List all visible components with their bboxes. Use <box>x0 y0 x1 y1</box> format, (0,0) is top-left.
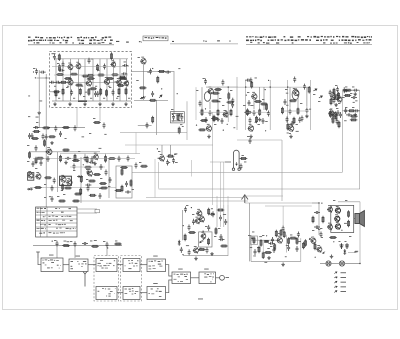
label <box>285 255 287 258</box>
wire row stage1 <box>199 111 232 113</box>
label <box>196 89 198 92</box>
wire row y152 <box>30 151 100 153</box>
label <box>318 100 320 103</box>
block IF-1 text3 <box>98 265 115 266</box>
junction <box>270 86 271 87</box>
resistor resistor R121 <box>100 187 108 189</box>
wire y255 <box>183 254 228 256</box>
arrow arrow TP10 <box>334 281 338 284</box>
wire lead <box>126 59 128 101</box>
wire x136 <box>135 133 137 154</box>
label <box>223 213 226 216</box>
wire y240 <box>251 239 280 241</box>
capacitor capacitor C119 <box>284 99 287 105</box>
transistor transistor T1 <box>67 64 73 70</box>
label <box>49 195 51 198</box>
parts list row1 right <box>246 36 372 38</box>
capacitor capacitor C1 <box>88 58 91 64</box>
junction <box>107 247 108 248</box>
capacitor capacitor C21 <box>118 156 121 162</box>
resistor resistor R60 <box>260 239 262 247</box>
wire lamps bus <box>320 263 360 265</box>
block det-2 text4 <box>0 0 1 1</box>
label <box>247 91 249 94</box>
diode diode D2 <box>27 188 33 191</box>
label <box>81 85 83 88</box>
parts list rule mid <box>170 43 238 45</box>
lamp circle 2 <box>339 261 344 266</box>
wire stage1 top <box>206 86 238 88</box>
wire row y167 <box>70 166 105 168</box>
wire row y100 <box>134 99 168 101</box>
wire x157 down <box>156 100 158 135</box>
parts list stamp text <box>145 37 167 39</box>
capacitor capacitor C60 <box>96 91 99 97</box>
label <box>203 77 205 80</box>
transistor transistor T38 <box>310 238 316 244</box>
block driver text3 <box>174 278 189 281</box>
capacitor capacitor C27 <box>125 191 131 194</box>
resistor resistor R63 <box>289 237 297 239</box>
ground <box>334 103 338 107</box>
label <box>35 125 38 128</box>
wire vertical x57 <box>57 152 59 192</box>
wire stage2 top <box>238 86 270 88</box>
wire top bus in IF unit <box>55 58 128 60</box>
capacitor capacitor C8 <box>112 90 115 96</box>
resistor resistor R22 <box>149 99 157 101</box>
wire x249 <box>249 203 251 261</box>
capacitor capacitor C45 <box>219 215 222 221</box>
resistor resistor R16 <box>125 88 127 96</box>
pot frame <box>251 236 258 245</box>
capacitor capacitor C116 <box>40 160 43 166</box>
junction <box>315 257 316 258</box>
transistor transistor T8 <box>123 80 128 86</box>
block AF-2 text3 <box>149 293 155 294</box>
capacitor capacitor C87 <box>103 64 106 70</box>
label <box>28 95 30 98</box>
rail stage2b <box>269 80 271 130</box>
label <box>247 135 249 138</box>
junction <box>83 164 84 165</box>
ground <box>281 263 285 267</box>
capacitor capacitor C52 <box>282 226 285 232</box>
resistor resistor R96 <box>72 160 80 162</box>
resistor resistor R47 <box>330 98 332 106</box>
block pre-amp text2 <box>43 262 55 263</box>
label <box>267 247 270 250</box>
transistor transistor T3 <box>110 61 115 67</box>
wire lead <box>55 59 57 101</box>
capacitor capacitor C118 <box>199 101 202 107</box>
table row 7 data <box>49 232 65 233</box>
capacitor capacitor C73 <box>346 113 352 116</box>
capacitor capacitor C115 <box>109 177 112 183</box>
resistor resistor R61 <box>275 230 277 238</box>
ground <box>267 256 271 260</box>
wire right row1 <box>343 89 360 91</box>
label <box>175 161 178 164</box>
label <box>352 106 354 109</box>
capacitor capacitor C68 <box>303 84 306 90</box>
resistor resistor R82 <box>214 89 222 91</box>
resistor resistor R79 <box>139 87 147 89</box>
transistor transistor T30 <box>200 233 205 239</box>
resistor resistor R18 <box>42 127 50 129</box>
label <box>298 240 301 243</box>
capacitor capacitor C93 <box>301 116 304 122</box>
resistor resistor R8 <box>60 81 68 83</box>
resistor resistor R129 <box>258 246 260 254</box>
resistor resistor R94 <box>86 156 88 164</box>
capacitor capacitor C90 <box>249 118 252 124</box>
label <box>341 290 347 293</box>
resistor resistor R123 <box>29 151 31 159</box>
resistor resistor R133 <box>93 174 101 176</box>
wire lead <box>161 145 163 156</box>
capacitor capacitor C14 <box>103 123 106 129</box>
capacitor capacitor C51 <box>271 237 274 243</box>
table row line <box>36 230 77 232</box>
sub-circuit frame <box>116 166 132 198</box>
label <box>333 199 335 202</box>
resistor resistor R102 <box>140 165 148 167</box>
transistor transistor T42 <box>331 111 336 117</box>
junction <box>161 88 162 89</box>
resistor resistor R77 <box>89 88 97 90</box>
capacitor capacitor C114 <box>105 170 108 176</box>
capacitor capacitor C47 <box>56 241 59 247</box>
block IF-2 text2 <box>98 291 113 292</box>
resistor resistor R80 <box>157 76 159 84</box>
ground <box>53 102 57 106</box>
wire corner x158 <box>158 162 160 189</box>
wire into IF box <box>37 77 50 79</box>
wire y71 to corner <box>131 71 174 114</box>
junction <box>265 89 266 90</box>
resistor resistor R48 <box>348 110 356 112</box>
label <box>66 86 68 89</box>
capacitor capacitor C44 <box>192 219 195 225</box>
parts list row2 left <box>28 39 113 41</box>
label <box>57 62 59 65</box>
rail stage1b <box>236 77 238 130</box>
capacitor capacitor C9 <box>35 69 38 75</box>
junction <box>287 86 288 87</box>
table row line <box>36 222 77 224</box>
transistor transistor T14 <box>35 173 41 179</box>
block driver text <box>174 274 188 275</box>
resistor resistor R108 <box>59 64 61 72</box>
block IF-1 <box>96 259 117 272</box>
table row 6 data <box>56 228 76 230</box>
label <box>58 97 60 100</box>
resistor resistor R70 <box>322 216 324 224</box>
wire PH <box>348 252 356 254</box>
label <box>182 125 184 128</box>
capacitor capacitor C33 <box>267 111 270 117</box>
label <box>286 244 288 247</box>
resistor resistor R124 <box>333 88 335 96</box>
wire drop from IF box <box>76 108 78 128</box>
resistor resistor R115 <box>108 158 116 160</box>
label <box>95 85 97 88</box>
table row 1 data <box>55 208 71 209</box>
resistor resistor R142 <box>344 95 352 97</box>
arrow arrow TP2 <box>313 88 317 92</box>
ground <box>249 135 253 139</box>
label <box>350 92 352 95</box>
label <box>61 189 63 192</box>
wire lead <box>289 87 291 108</box>
junction <box>347 94 348 95</box>
label <box>233 126 235 129</box>
resistor resistor R126 <box>215 227 217 235</box>
rail x224 upper <box>223 162 225 205</box>
capacitor capacitor C88 <box>205 117 208 123</box>
dipole antenna <box>225 150 240 170</box>
block driver <box>172 272 191 284</box>
capacitor capacitor C4 <box>49 81 55 84</box>
label <box>67 85 69 88</box>
resistor resistor R117 <box>48 136 56 138</box>
wire lead <box>84 59 86 101</box>
resistor resistor R83 <box>198 129 206 131</box>
capacitor capacitor C43 <box>209 213 215 216</box>
label <box>259 235 262 238</box>
resistor resistor R112 <box>293 117 295 125</box>
transistor transistor T34 <box>334 216 340 222</box>
capacitor capacitor C100 <box>51 185 54 191</box>
capacitor capacitor C102 <box>73 164 76 170</box>
resistor resistor R29 <box>33 131 41 133</box>
label <box>153 255 158 258</box>
label <box>82 135 85 138</box>
parts list rule left <box>28 44 114 46</box>
capacitor capacitor C84 <box>297 232 300 238</box>
label <box>355 250 358 253</box>
label <box>139 161 141 164</box>
capacitor capacitor C92 <box>286 117 289 123</box>
capacitor capacitor C15 <box>165 71 171 74</box>
label <box>244 161 246 164</box>
ground <box>207 135 211 139</box>
resistor resistor R31 <box>44 177 52 179</box>
label <box>289 132 291 135</box>
wire block3-4 <box>117 264 123 266</box>
resistor resistor R24 <box>178 127 180 135</box>
label <box>158 150 160 153</box>
ground <box>353 92 357 96</box>
wire lead <box>253 100 255 110</box>
label <box>64 240 67 243</box>
wire lower row <box>33 245 122 247</box>
wire top right <box>338 201 360 203</box>
label <box>85 91 87 94</box>
junction <box>177 93 178 94</box>
label <box>252 231 254 234</box>
block det-2 text3 <box>125 293 137 294</box>
junction <box>318 202 319 203</box>
block output text4 <box>210 280 211 283</box>
junction <box>172 114 173 115</box>
rail x282 <box>281 140 283 201</box>
label <box>54 239 56 242</box>
table row line <box>36 226 77 228</box>
transistor transistor T36 <box>327 206 333 212</box>
block output <box>199 272 216 284</box>
dashed enclosure IF unit <box>50 52 132 108</box>
wire bus y154 <box>60 153 140 155</box>
capacitor capacitor C111 <box>273 247 276 253</box>
capacitor capacitor C69 <box>291 121 294 127</box>
label <box>100 177 102 180</box>
transistor transistor T13 <box>27 172 33 178</box>
capacitor capacitor C80 <box>180 247 183 253</box>
resistor resistor R89 <box>265 103 267 111</box>
transistor transistor T19 <box>206 125 212 131</box>
resistor resistor R43 <box>260 103 268 105</box>
capacitor capacitor C17 <box>180 114 183 120</box>
label <box>116 97 118 100</box>
right rail x343 <box>342 90 344 172</box>
resistor resistor R106 <box>106 78 114 80</box>
resistor resistor R38 <box>201 108 203 116</box>
capacitor capacitor C3 <box>62 62 65 68</box>
wire vertical x109 <box>108 158 110 198</box>
label <box>186 244 189 247</box>
resistor resistor R99 <box>62 183 64 191</box>
label <box>230 89 232 92</box>
diode diode D3 <box>77 175 83 178</box>
capacitor capacitor C122 <box>337 110 340 116</box>
transistor transistor T27 <box>196 210 202 216</box>
label <box>33 67 35 70</box>
resistor resistor R42 <box>259 108 261 116</box>
bus y140 <box>237 139 282 141</box>
resistor resistor R58 <box>114 243 122 245</box>
table pointer box <box>95 210 100 213</box>
label <box>176 114 178 117</box>
wire left vertical to table <box>45 128 47 208</box>
label <box>250 104 253 107</box>
label <box>44 183 46 186</box>
label <box>117 95 119 98</box>
label <box>330 108 332 111</box>
label <box>270 245 272 248</box>
wire bottom bus of IF unit <box>52 100 131 102</box>
label <box>136 79 139 82</box>
capacitor capacitor C10 <box>40 71 46 74</box>
wire y125 <box>138 124 152 126</box>
capacitor capacitor C78 <box>207 225 210 231</box>
label <box>320 227 322 230</box>
label <box>296 130 299 133</box>
label <box>180 123 182 126</box>
rail x220 upper <box>219 162 221 205</box>
wire stage3 top <box>270 86 310 88</box>
block AF-1 text <box>149 261 163 262</box>
label <box>73 97 75 100</box>
wire input vertical <box>45 74 47 128</box>
resistor resistor R1 <box>97 64 99 72</box>
label <box>339 240 341 243</box>
capacitor capacitor C5 <box>55 81 61 84</box>
resistor resistor R2 <box>56 74 64 76</box>
resistor resistor R20 <box>93 122 101 124</box>
junction <box>152 68 153 69</box>
capacitor capacitor C37 <box>343 87 346 93</box>
label <box>76 255 81 258</box>
capacitor capacitor C61 <box>151 91 154 97</box>
label <box>354 251 358 254</box>
resistor resistor R4 <box>82 75 90 77</box>
label <box>257 246 259 249</box>
junction <box>245 86 246 87</box>
capacitor capacitor C35 <box>289 109 292 115</box>
resistor resistor R113 <box>36 157 44 159</box>
capacitor capacitor C120 <box>149 68 152 74</box>
label <box>124 61 126 64</box>
wire lead <box>306 87 308 107</box>
table row 4 data <box>49 220 73 221</box>
label <box>345 199 347 202</box>
can blob2 <box>60 176 72 185</box>
resistor resistor R55 <box>198 249 206 251</box>
capacitor capacitor C91 <box>262 118 265 124</box>
label <box>63 193 65 196</box>
resistor resistor R32 <box>121 168 123 176</box>
capacitor capacitor C101 <box>87 185 90 191</box>
capacitor capacitor C125 <box>249 138 252 144</box>
wire drop3 <box>106 248 108 256</box>
block IF-2 text4 <box>106 296 111 297</box>
resistor resistor R73 <box>87 74 95 76</box>
wire blockB2-B3 <box>140 292 147 294</box>
label <box>321 236 323 239</box>
resistor resistor R56 <box>62 245 70 247</box>
transistor transistor T23 <box>288 125 294 131</box>
resistor resistor R3 <box>70 73 78 75</box>
resistor resistor R6 <box>111 74 119 76</box>
resistor resistor R119 <box>34 187 42 189</box>
label <box>178 67 180 70</box>
wire lead <box>209 102 211 110</box>
transistor transistor T26 <box>328 110 334 116</box>
label <box>128 97 130 100</box>
capacitor capacitor C23 <box>172 158 175 164</box>
label <box>313 93 315 96</box>
resistor resistor R104 <box>64 78 72 80</box>
capacitor capacitor C117 <box>248 100 251 106</box>
wire driver-output <box>191 277 200 279</box>
label <box>93 117 95 120</box>
transistor transistor T9 <box>140 58 146 64</box>
resistor resistor R34 <box>120 167 128 169</box>
capacitor capacitor C113 <box>87 169 90 175</box>
resistor resistor R57 <box>91 245 99 247</box>
resistor resistor R128 <box>188 232 196 234</box>
capacitor capacitor C6 <box>70 90 73 96</box>
label <box>153 282 158 285</box>
capacitor capacitor C65 <box>231 98 234 104</box>
block IF-1 text <box>100 260 115 261</box>
label <box>341 281 347 284</box>
junction <box>35 77 36 78</box>
block det-1 text2 <box>129 263 138 264</box>
wire blockB1-B2 <box>117 292 123 294</box>
